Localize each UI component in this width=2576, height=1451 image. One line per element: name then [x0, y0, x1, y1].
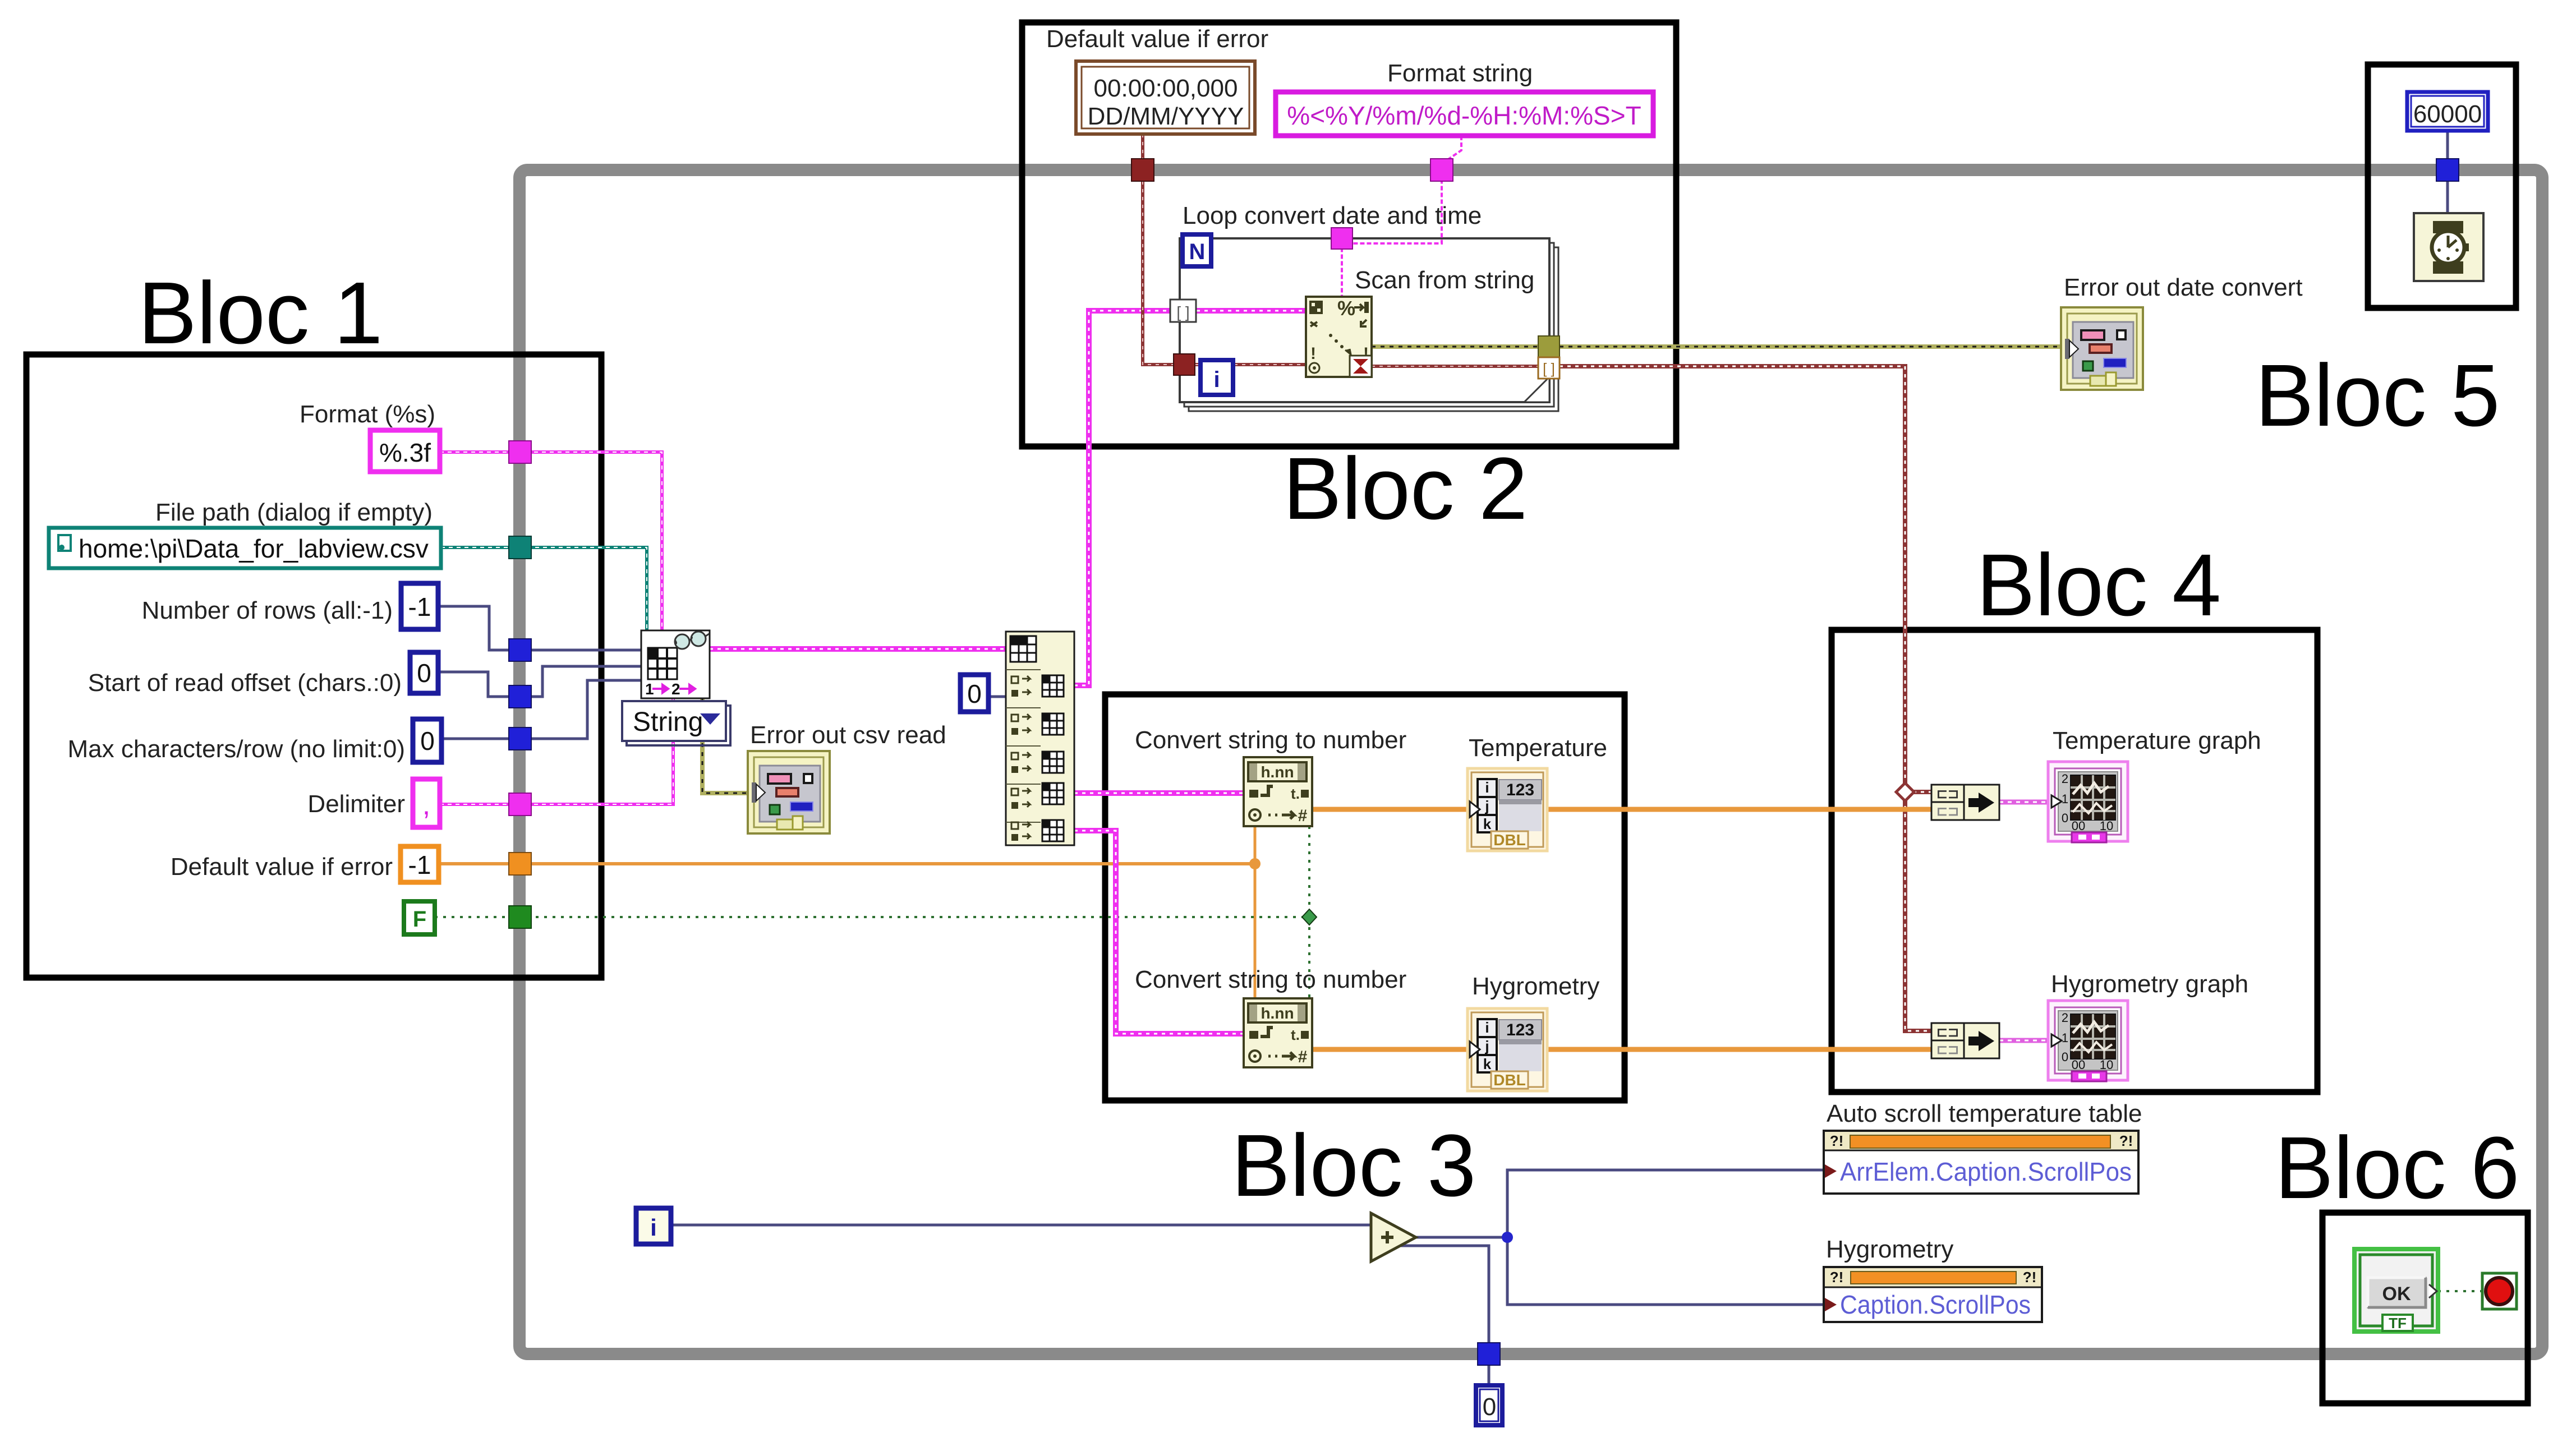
wire: index array row4 temperature strings to convert node 1 — [1074, 790, 1244, 796]
wire: index array row5 hygrometry strings to convert node 2 — [1074, 831, 1244, 1034]
wire: F boolean dotted to convert nodes — [435, 916, 1309, 918]
svg-text:0: 0 — [417, 658, 431, 688]
svg-text:!: ! — [1310, 344, 1316, 363]
svg-text:Bloc 4: Bloc 4 — [1976, 536, 2221, 634]
wire: format string down into for loop — [1342, 136, 1461, 297]
Bloc 3 annotation rectangle — [1105, 694, 1625, 1100]
tunnel: F boolean (left border) — [509, 906, 531, 928]
svg-text:Temperature: Temperature — [1469, 734, 1607, 762]
svg-text:60000: 60000 — [2413, 100, 2482, 128]
wire: increment output to junction — [1416, 1236, 1507, 1239]
svg-text:Error out date convert: Error out date convert — [2064, 274, 2303, 301]
svg-text:Error out csv read: Error out csv read — [750, 721, 946, 749]
svg-text:Bloc 3: Bloc 3 — [1231, 1117, 1476, 1215]
wire: error array dark red from for loop to Bloc4 bundles — [1560, 366, 1931, 1031]
wire: delimiter to read node — [440, 698, 673, 804]
for loop main frame — [1180, 238, 1549, 402]
Bloc1 constant -1 orange — [401, 846, 439, 882]
svg-text:-1: -1 — [408, 850, 431, 879]
wire: error array branch to upper bundle — [1905, 790, 1931, 794]
read delimited spreadsheet node — [641, 630, 710, 698]
wire: dark red scalar inside for loop to scan node — [1195, 363, 1306, 366]
svg-text:Scan from string: Scan from string — [1355, 266, 1534, 294]
convert string to number node 1 — [1244, 757, 1312, 826]
for loop magenta top tunnel — [1331, 228, 1353, 249]
Bloc 6 annotation rectangle — [2322, 1213, 2528, 1403]
wire: increment branch down to 0 constant below loop — [1401, 1246, 1489, 1385]
svg-text:%: % — [1337, 297, 1355, 320]
svg-text:Auto scroll temperature table: Auto scroll temperature table — [1827, 1100, 2142, 1127]
svg-text:i: i — [650, 1214, 657, 1241]
svg-text:Delimiter: Delimiter — [307, 790, 405, 818]
Bloc1 constant -1 — [401, 583, 438, 629]
tunnel: 60000 blue (top border) — [2436, 159, 2459, 181]
Bloc 2 annotation rectangle — [1022, 22, 1676, 446]
tunnel: delimiter (left border) — [509, 793, 531, 816]
tunnel: number of rows (left border) — [509, 639, 531, 661]
svg-text:Caption.ScrollPos: Caption.ScrollPos — [1840, 1290, 2031, 1319]
tunnel: iteration count 0 (bottom border) — [1478, 1343, 1500, 1365]
wire: number of rows -1 to read node — [438, 606, 642, 650]
Bloc5 constant 60000 — [2407, 92, 2488, 131]
wire: scan node error out to right tunnel — [1372, 365, 1539, 368]
svg-text:i: i — [1213, 367, 1220, 392]
svg-text:%.3f: %.3f — [379, 438, 431, 467]
wire: scan node time array out through tunnel to error indicator — [1372, 344, 2061, 349]
for loop error array out tunnel — [1538, 357, 1560, 379]
svg-text:?!: ?! — [1830, 1132, 1844, 1149]
svg-text:String: String — [633, 707, 703, 737]
for loop i terminal — [1200, 360, 1233, 395]
svg-text:Bloc 5: Bloc 5 — [2255, 347, 2500, 445]
wire: convert node 2 output to Hygrometry indicator — [1313, 1047, 1466, 1052]
lower bundle node — [1931, 1023, 1999, 1058]
error out date convert indicator — [2061, 307, 2143, 390]
OK boolean button terminal — [2354, 1249, 2438, 1332]
Hygrometry indicator — [1468, 1008, 1547, 1091]
while loop iteration terminal i — [636, 1208, 671, 1244]
tunnel: default value (left border) — [509, 853, 531, 875]
wire: index array row1 date strings up to for loop tunnel — [1074, 311, 1175, 685]
wire: junction down to Caption property node — [1507, 1237, 1824, 1305]
Temperature graph indicator — [2048, 762, 2128, 842]
String type dropdown — [622, 701, 730, 745]
wire: format %.3f to read node — [440, 452, 662, 630]
svg-text:ArrElem.Caption.ScrollPos: ArrElem.Caption.ScrollPos — [1840, 1157, 2132, 1186]
svg-text:Default value if error: Default value if error — [171, 853, 393, 881]
tunnel: default time dark red (top border) — [1131, 159, 1154, 181]
svg-text:F: F — [413, 907, 426, 932]
Bloc1 file path constant — [49, 528, 441, 568]
tunnel: read offset (left border) — [509, 685, 531, 708]
junction dark red diamond — [1896, 783, 1914, 801]
error out csv read indicator — [748, 751, 830, 833]
wire: start of read offset 0 to read node — [438, 666, 642, 697]
convert string to number node 2 — [1244, 998, 1312, 1067]
Bloc1 delimiter comma constant — [413, 779, 440, 827]
svg-text:Start of read offset (chars.:0: Start of read offset (chars.:0) — [88, 669, 402, 697]
ArrElem property node — [1824, 1131, 2138, 1194]
for loop olive time array out tunnel — [1538, 336, 1560, 357]
wire: max characters 0 to read node — [441, 680, 642, 739]
svg-text:N: N — [1189, 239, 1206, 264]
svg-text:Hygrometry graph: Hygrometry graph — [2051, 970, 2248, 998]
svg-text:Bloc 6: Bloc 6 — [2275, 1119, 2519, 1217]
svg-text:00:00:00,000: 00:00:00,000 — [1094, 75, 1238, 102]
svg-text:Default value if error: Default value if error — [1046, 25, 1268, 53]
svg-text:-1: -1 — [408, 592, 431, 621]
for loop auto-index input tunnel — [1170, 300, 1196, 322]
svg-text:DD/MM/YYYY: DD/MM/YYYY — [1088, 103, 1244, 130]
svg-text:Convert string to number: Convert string to number — [1135, 726, 1406, 754]
wire: Hygrometry to lower bundle — [1548, 1047, 1931, 1052]
svg-text:Bloc 2: Bloc 2 — [1283, 440, 1528, 538]
svg-text:?!: ?! — [1830, 1269, 1844, 1286]
wire: date string array inside loop to scan node — [1197, 308, 1306, 314]
junction blue dot — [1502, 1232, 1513, 1243]
Bloc1 constant F boolean — [404, 901, 435, 934]
tunnel: format string magenta (top border) — [1430, 159, 1453, 181]
wire: Temperature to upper bundle — [1548, 807, 1931, 812]
wait ms timer node — [2414, 213, 2483, 281]
for loop page curl — [1524, 377, 1549, 402]
Bloc2 default time constant — [1076, 61, 1255, 134]
svg-text:Bloc 1: Bloc 1 — [138, 264, 383, 362]
svg-text:[ ]: [ ] — [1543, 360, 1555, 377]
svg-text:OK: OK — [2382, 1283, 2411, 1305]
wire: iteration i to increment node — [671, 1224, 1371, 1227]
tunnel: file path (left border) — [509, 536, 531, 559]
wire: convert node 1 output to Temperature indicator — [1313, 807, 1466, 812]
tunnel: max characters (left border) — [509, 727, 531, 750]
svg-text:%<%Y/%m/%d-%H:%M:%S>T: %<%Y/%m/%d-%H:%M:%S>T — [1287, 101, 1641, 130]
svg-text:Temperature graph: Temperature graph — [2053, 727, 2261, 754]
while loop stop condition terminal — [2482, 1273, 2517, 1309]
wire: junction up to ArrElem property node — [1507, 1170, 1824, 1237]
svg-text:,: , — [422, 789, 430, 821]
wire: default value -1 orange to convert nodes — [439, 862, 1255, 865]
wire: 60000 to wait node — [2446, 131, 2449, 213]
wire: 0 constant to index array — [988, 695, 1006, 698]
svg-text:0: 0 — [967, 679, 982, 708]
Bloc 5 annotation rectangle — [2368, 65, 2516, 308]
tunnel: format string (left border) — [509, 441, 531, 463]
Bloc1 constant 0 (read offset) — [410, 652, 438, 693]
index array output array icons — [1042, 675, 1064, 841]
wire: read node 2D string array to index array — [710, 646, 1006, 652]
svg-text:?!: ?! — [2023, 1269, 2037, 1286]
while loop border — [519, 170, 2542, 1354]
Bloc1 constant 0 (max chars) — [413, 719, 441, 762]
svg-text:Hygrometry: Hygrometry — [1472, 973, 1599, 1000]
for loop stacked frame 2 — [1184, 243, 1554, 407]
index array 0 constant — [960, 675, 988, 712]
wire: file path to read node — [441, 547, 647, 630]
for loop stacked frame 3 — [1189, 247, 1558, 411]
Bloc 1 annotation rectangle — [26, 354, 601, 978]
Bloc 4 annotation rectangle — [1832, 630, 2317, 1092]
svg-text:Loop convert date and time: Loop convert date and time — [1183, 202, 1482, 229]
Bloc2 format string constant — [1276, 92, 1653, 136]
junction green diamond — [1302, 909, 1317, 925]
scan from string node — [1306, 297, 1372, 377]
for loop N terminal — [1183, 234, 1211, 266]
svg-text:[ ]: [ ] — [1176, 303, 1189, 321]
for loop dark red scalar tunnel — [1174, 354, 1195, 375]
svg-text:File path (dialog if empty): File path (dialog if empty) — [155, 499, 433, 526]
svg-text:Format (%s): Format (%s) — [300, 400, 435, 428]
wire: OK button to stop terminal — [2438, 1290, 2482, 1292]
constant 0 below loop — [1476, 1385, 1502, 1425]
svg-text:Max characters/row (no limit:: Max characters/row (no limit:0) — [68, 735, 405, 763]
Bloc1 constant %.3f — [370, 430, 440, 472]
upper bundle node — [1931, 785, 1999, 820]
wire: lower bundle cluster out to Hygrometry graph — [1999, 1038, 2047, 1043]
Caption property node — [1824, 1267, 2042, 1322]
svg-text:2: 2 — [671, 680, 680, 698]
Hygrometry graph indicator — [2048, 1001, 2128, 1081]
wire: upper bundle cluster out to Temperature graph — [1999, 800, 2047, 805]
svg-text:TF: TF — [2389, 1315, 2407, 1332]
Temperature indicator — [1468, 768, 1547, 851]
svg-text:Convert string to number: Convert string to number — [1135, 966, 1406, 993]
svg-text:Hygrometry: Hygrometry — [1826, 1236, 1953, 1263]
wire: read node error out to csv error indicator — [702, 698, 748, 793]
junction orange dot — [1249, 858, 1261, 869]
increment node — [1371, 1213, 1416, 1261]
wire: default time constant dark red down into for loop — [1143, 134, 1174, 365]
index array node — [1006, 632, 1074, 845]
svg-text:0: 0 — [420, 726, 435, 756]
svg-text:home:\pi\Data_for_labview.csv: home:\pi\Data_for_labview.csv — [79, 534, 429, 563]
svg-text:Number of rows (all:-1): Number of rows (all:-1) — [142, 597, 393, 624]
svg-text:Format string: Format string — [1387, 59, 1533, 87]
svg-text:0: 0 — [1483, 1393, 1496, 1421]
svg-text:?!: ?! — [2119, 1132, 2133, 1149]
index array row glyphs — [1011, 676, 1030, 841]
